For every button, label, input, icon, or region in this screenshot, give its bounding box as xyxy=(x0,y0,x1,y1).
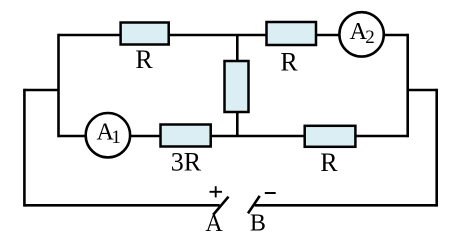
wire: left jog horizontal xyxy=(24,89,58,92)
wire: right outer vertical xyxy=(435,89,438,207)
wire: right inner vertical xyxy=(406,34,409,138)
wire: right jog horizontal xyxy=(408,89,437,92)
resistor R3 (middle right, label R) xyxy=(305,126,356,147)
svg-text:B: B xyxy=(250,211,266,237)
svg-text:1: 1 xyxy=(111,127,121,148)
svg-text:3R: 3R xyxy=(171,148,202,177)
plus sign at terminal A xyxy=(210,186,223,197)
wire: middle branch horizontal xyxy=(59,135,408,138)
wire: left outer vertical xyxy=(23,89,26,207)
ammeter A2 xyxy=(339,12,383,56)
node label B xyxy=(250,211,266,237)
resistor 3R (middle left) xyxy=(161,125,211,147)
value label R (for R2) xyxy=(280,48,298,77)
wire: center vertical through middle resistor xyxy=(236,35,239,136)
minus sign at terminal B xyxy=(265,192,276,194)
resistor center vertical (unlabeled) xyxy=(225,61,249,112)
value label 3R xyxy=(171,148,202,177)
resistor R2 (top right, label R) xyxy=(267,22,317,45)
svg-text:R: R xyxy=(280,48,298,77)
resistor R1 (top left, label R) xyxy=(121,23,169,45)
svg-text:R: R xyxy=(135,45,153,74)
terminal A blade (diagonal) xyxy=(213,197,228,215)
svg-text:2: 2 xyxy=(365,27,375,48)
node label A xyxy=(205,211,223,237)
terminal B blade (diagonal) xyxy=(248,196,260,214)
ammeter A1 xyxy=(86,113,130,157)
value label R (for R1) xyxy=(135,45,153,74)
svg-text:A: A xyxy=(205,211,223,237)
wire: bottom left horizontal to terminal A xyxy=(24,204,219,207)
wire: left inner vertical xyxy=(57,34,60,138)
svg-text:R: R xyxy=(320,148,338,177)
wire: top horizontal xyxy=(59,34,408,37)
value label R (for R3) xyxy=(320,148,338,177)
wire: bottom right horizontal from terminal B xyxy=(255,204,437,207)
